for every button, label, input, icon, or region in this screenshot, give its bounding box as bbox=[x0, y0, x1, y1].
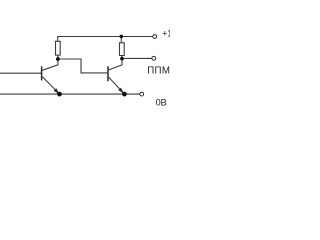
node at Q2 emitter on 0V rail bbox=[122, 92, 127, 97]
svg-text:0В: 0В bbox=[156, 97, 167, 107]
resistor R2 bbox=[120, 43, 125, 56]
svg-text:+12: +12 bbox=[162, 28, 170, 38]
wire top supply rail with R1 top lead bbox=[58, 37, 153, 42]
wire Q1 base input rail bbox=[0, 72, 41, 74]
node at Q1 emitter on 0V rail bbox=[57, 92, 62, 97]
terminal PPM bbox=[152, 56, 156, 60]
wire link from R1 bottom to Q2 base bbox=[58, 59, 108, 73]
transistor Q2 bbox=[108, 60, 123, 93]
wire R2 top lead bbox=[120, 37, 122, 43]
wire to PPM terminal bbox=[122, 57, 152, 59]
svg-text:ППМ: ППМ bbox=[147, 65, 170, 76]
wire R1 bottom lead bbox=[57, 55, 59, 59]
wire bottom 0V rail bbox=[0, 93, 140, 95]
transistor Q1 bbox=[42, 60, 59, 94]
wire R2 bottom lead bbox=[121, 55, 123, 58]
node at R1 bottom / Q1 collector bbox=[56, 57, 60, 61]
terminal +supply bbox=[153, 35, 157, 39]
terminal 0V bbox=[140, 92, 144, 96]
node at R2 bottom / Q2 collector bbox=[120, 57, 124, 61]
resistor R1 bbox=[56, 41, 61, 55]
node at R2 top tap bbox=[120, 35, 124, 39]
